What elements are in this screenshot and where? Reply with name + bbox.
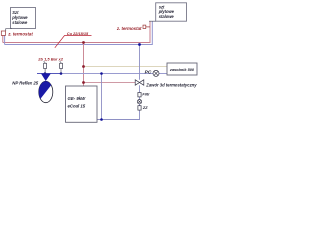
svg-text:z. termostat: z. termostat: [7, 31, 33, 36]
svg-text:eCoal 15: eCoal 15: [68, 104, 86, 109]
svg-text:Cu 22/18/15: Cu 22/18/15: [67, 31, 89, 36]
svg-text:Zawór 3d termostatyczny: Zawór 3d termostatyczny: [145, 83, 197, 88]
svg-text:ZZ: ZZ: [142, 106, 148, 110]
svg-text:stalowe: stalowe: [12, 20, 28, 25]
svg-text:stalowe: stalowe: [159, 14, 175, 19]
svg-text:GE- 9kW: GE- 9kW: [68, 96, 87, 101]
svg-text:2b 1,5 Bar x2: 2b 1,5 Bar x2: [37, 57, 63, 62]
svg-text:Filtr: Filtr: [142, 92, 150, 96]
svg-text:NP Reflex 25: NP Reflex 25: [12, 81, 38, 86]
svg-text:zasobnik 500: zasobnik 500: [169, 67, 195, 72]
svg-text:PC: PC: [145, 69, 152, 75]
svg-text:z. termostat: z. termostat: [116, 26, 142, 31]
